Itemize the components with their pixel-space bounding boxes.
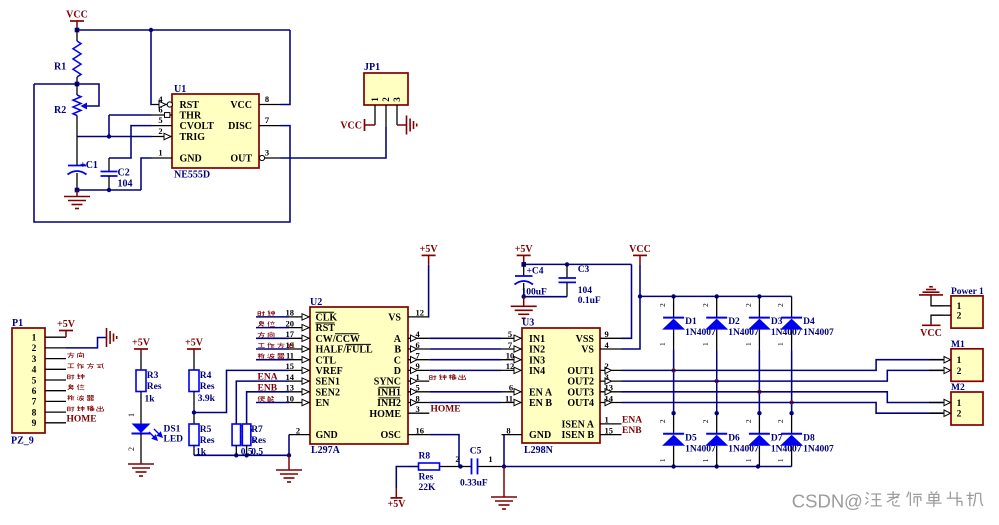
svg-text:VCC: VCC [629,244,651,255]
svg-text:INH2: INH2 [377,398,401,409]
power port +5V (U2 VS) [422,254,436,256]
svg-text:15: 15 [605,425,614,435]
svg-text:Res: Res [200,436,215,446]
wire VSS pin9 to +5V [622,264,632,338]
net label 时钟输出 [68,407,75,412]
pin 8 U3 GND [502,434,523,436]
svg-text:13: 13 [286,383,295,393]
svg-text:EN A: EN A [529,387,553,398]
svg-text:2: 2 [32,344,37,354]
wire VCC diode rail [640,295,792,297]
wire bottom diode rail [504,466,792,468]
svg-text:1: 1 [127,413,136,417]
wire GND pin1 [141,158,152,190]
svg-text:SYNC: SYNC [374,377,401,388]
svg-text:8: 8 [265,94,269,104]
svg-text:22K: 22K [419,483,437,493]
pin 16 U2 OSC [408,434,429,436]
svg-text:B: B [394,345,401,356]
wire stub U2 row 4 [256,359,289,361]
wire OUT4 [622,403,944,414]
pin 1 U3 ISEN A [600,423,622,425]
op-amp U1 NE555D [172,94,259,168]
svg-text:12: 12 [416,308,425,318]
svg-text:+5V: +5V [132,338,151,349]
pin 7 U3 IN2 [501,348,522,350]
svg-text:1: 1 [158,148,162,158]
svg-text:Res: Res [200,382,215,392]
pin 17 U2 CW/CCW [289,337,310,339]
svg-text:+5V: +5V [420,244,439,255]
wire +5V rail [524,263,632,265]
capacitor C2 [101,171,118,173]
svg-text:2: 2 [701,419,710,423]
pin 1 M1 [929,359,951,361]
svg-text:2: 2 [658,419,667,423]
IC U2 L297A [310,307,408,444]
power port +5V (R3) [134,348,148,350]
svg-text:2: 2 [776,303,785,307]
pin 4 U3 VS [600,348,622,350]
svg-text:11: 11 [505,393,513,403]
svg-text:DS1: DS1 [164,425,181,435]
svg-text:OUT2: OUT2 [567,377,594,388]
resistor R6 [232,424,241,446]
wire stub U2 row 0 [256,316,289,318]
pin 14 U2 SEN1 [289,380,310,382]
svg-text:1: 1 [701,458,710,462]
svg-text:CTL: CTL [316,355,337,366]
wire stub U2 row 2 [256,337,289,339]
svg-text:CSDN: CSDN [792,491,844,512]
wire INH1 to EN A [429,391,501,393]
pin 1 M2 [929,402,951,404]
ground (P1 pin2) [106,328,108,347]
pin 9 U2 D [408,369,429,371]
svg-text:2: 2 [296,425,300,435]
svg-text:2: 2 [957,367,962,377]
wire TRIG row [77,136,152,138]
pin 6 U3 EN A [501,391,522,393]
pin 2 JP1 [385,105,387,127]
ground (LED) [140,462,142,464]
svg-text:1: 1 [744,342,753,346]
pin 3 JP1 to ground [396,105,398,125]
pin 11 U3 EN B [501,402,522,404]
pin 3 U1 [259,157,281,159]
wire THR branch [108,115,110,137]
svg-text:9: 9 [32,419,37,429]
pin 1 Power1 to ground [943,305,951,307]
svg-text:ENA: ENA [258,373,278,383]
pin 2 M2 [929,412,951,414]
svg-text:TRIG: TRIG [180,132,206,143]
pin 18 U2 CLK [289,316,310,318]
svg-text:VCC: VCC [230,100,252,111]
wire diode column 2 [716,296,718,317]
svg-text:HOME: HOME [431,405,461,415]
net label 复位 (U2) [258,321,264,327]
svg-text:RST: RST [316,323,336,334]
svg-text:1: 1 [658,342,667,346]
wire OUT1 [622,360,944,371]
pin 2 M1 [929,369,951,371]
pin 1 JP1 to VCC [374,105,376,125]
net label 方向 [67,352,74,358]
svg-text:M2: M2 [951,383,965,393]
svg-text:D: D [394,366,401,377]
svg-text:7: 7 [32,398,37,408]
svg-text:SEN2: SEN2 [316,387,340,398]
svg-text:6: 6 [509,383,513,393]
svg-text:5: 5 [158,115,162,125]
svg-text:VCC: VCC [66,10,88,21]
wire VS pin12 [428,265,431,317]
svg-text:1N4007: 1N4007 [803,328,834,338]
connector P1 PZ_9 [12,328,45,433]
svg-text:Power 1: Power 1 [951,287,984,297]
node R1/R2 junction [34,83,77,85]
svg-text:13: 13 [605,383,614,393]
wire sense rail [194,454,289,456]
svg-text:D7: D7 [771,433,783,443]
svg-text:R4: R4 [200,371,212,381]
pin 5 U1 [152,125,173,127]
svg-text:RST: RST [180,100,200,111]
pin 7 U2 C [408,359,429,361]
svg-text:0.1uF: 0.1uF [578,296,601,306]
svg-text:3: 3 [392,97,402,102]
pin 13 U2 SEN2 [289,391,310,393]
node OUT junction D4 [789,400,793,404]
svg-text:2: 2 [776,419,785,423]
svg-text:R2: R2 [54,105,66,116]
svg-text:3: 3 [32,355,37,365]
wire RST from rail [150,30,153,105]
svg-text:+5V: +5V [185,338,204,349]
resistor R3 [136,370,146,392]
svg-text:3.9k: 3.9k [198,394,216,404]
pin 6 U1 [152,114,173,116]
svg-text:1: 1 [370,97,380,102]
power port +5V (P1) [59,330,73,332]
svg-text:OUT3: OUT3 [567,387,594,398]
svg-text:1: 1 [416,372,420,382]
svg-text:ENB: ENB [258,383,278,393]
svg-text:Res: Res [419,473,434,483]
connector M1 [951,349,983,382]
ground (C4) [523,297,525,307]
svg-text:16: 16 [416,425,425,435]
svg-text:VSS: VSS [576,334,595,345]
power port VCC (top) [70,20,84,22]
svg-text:6: 6 [32,387,37,397]
wire ground rail (555) [77,189,141,191]
wire VCC pin8 [281,30,291,105]
connector Power 1 [951,296,983,328]
svg-text:2: 2 [744,303,753,307]
svg-text:+5V: +5V [515,244,534,255]
svg-text:CW/CCW: CW/CCW [316,334,360,345]
rheostat R2 [76,84,78,95]
svg-text:ISEN A: ISEN A [561,420,594,431]
svg-text:ISEN B: ISEN B [561,430,594,441]
svg-text:L297A: L297A [311,445,341,456]
svg-text:THR: THR [180,111,202,122]
svg-text:1: 1 [701,342,710,346]
pin 14 U3 OUT4 [600,402,622,404]
svg-text:D8: D8 [803,433,815,443]
svg-text:14: 14 [605,393,614,403]
wire R2 wiper loop [77,84,99,106]
net label 时钟 [68,375,75,380]
wire DISC feedback loop [34,84,290,222]
pin 20 U2 RST [289,327,310,329]
svg-text:R3: R3 [147,371,159,381]
svg-text:2: 2 [957,312,962,322]
svg-text:1: 1 [744,458,753,462]
pin 2 Power1 to VCC [943,314,951,316]
svg-text:C2: C2 [118,168,130,179]
ground (U3) [503,467,505,498]
svg-text:1N4007: 1N4007 [803,444,834,454]
wire OUT to JP1 [281,127,387,158]
pin 11 U2 CTL [289,359,310,361]
net label 工作方式 [67,364,74,368]
svg-text:14: 14 [286,372,295,382]
svg-text:1k: 1k [145,395,156,405]
svg-text:IN1: IN1 [529,334,545,345]
power port +5V inverted (R8) [396,467,408,489]
svg-text:VS: VS [388,313,401,324]
svg-text:C: C [394,355,401,366]
pin 10 U3 IN3 [501,359,522,361]
svg-text:U3: U3 [522,318,534,329]
wire stub U2 row 1 [256,327,289,329]
svg-text:R8: R8 [419,452,431,462]
pin 3 U3 OUT2 [600,380,622,382]
svg-text:NE555D: NE555D [174,170,210,181]
svg-text:3: 3 [265,148,269,158]
net label 使能 (U2) [258,396,265,402]
svg-text:R7: R7 [251,425,263,435]
power port VCC (Power1 inverted) [922,324,941,326]
svg-text:Res: Res [147,382,162,392]
svg-text:IN4: IN4 [529,366,545,377]
pin 8 U2 INH2 [408,402,429,404]
capacitor C3 [566,264,568,278]
svg-text:EN B: EN B [529,398,552,409]
pin 4 U1 [152,104,173,106]
pin 10 U2 EN [289,402,310,404]
svg-text:U1: U1 [174,84,186,95]
svg-text:9: 9 [416,361,420,371]
svg-text:GND: GND [180,154,202,165]
ground (Power1 inverted) [930,295,932,296]
svg-text:GND: GND [316,430,338,441]
svg-text:SEN1: SEN1 [316,377,340,388]
svg-text:5: 5 [508,329,512,339]
svg-text:2: 2 [744,419,753,423]
svg-text:+C1: +C1 [80,160,98,171]
pin decorations U1 [159,101,166,107]
svg-text:CVOLT: CVOLT [180,121,215,132]
wire stub U2 row 8 [256,402,289,404]
svg-text:P1: P1 [12,318,23,329]
power port +5V (R4) [187,348,201,350]
svg-text:2: 2 [957,410,962,420]
pin 5 U2 INH1 [408,391,429,393]
svg-text:ENA: ENA [622,415,642,425]
wire top rail [77,29,290,31]
svg-text:OUT1: OUT1 [567,366,594,377]
wire OSC [429,435,460,467]
svg-text:INH1: INH1 [377,387,401,398]
wire C4-C3 bottom [524,296,567,298]
svg-text:VCC: VCC [340,121,362,132]
pin 13 U3 OUT3 [600,391,622,393]
ground (sense rail) [288,455,290,470]
net label 复位 [68,384,74,390]
svg-text:VCC: VCC [920,328,942,339]
svg-text:1: 1 [605,415,609,425]
svg-text:5: 5 [32,376,37,386]
svg-text:R5: R5 [200,425,212,435]
svg-text:R1: R1 [54,62,66,73]
svg-text:OUT: OUT [230,154,252,165]
pin 8 U1 [259,104,281,106]
pin GND U2 [289,434,310,436]
svg-text:1: 1 [776,458,785,462]
svg-text:VS: VS [581,345,594,356]
svg-text:0.5: 0.5 [251,448,263,458]
svg-text:L298N: L298N [524,445,554,456]
svg-text:10: 10 [506,351,515,361]
pin 6 U2 B [408,348,429,350]
svg-text:9: 9 [605,329,609,339]
pin 9 U3 VSS [600,337,622,339]
svg-text:1: 1 [488,454,492,464]
resistor R5 [189,424,199,446]
capacitor C4 (polarized) [523,264,525,276]
svg-text:VREF: VREF [316,366,343,377]
svg-text:EN: EN [316,398,331,409]
svg-text:D3: D3 [771,317,783,327]
svg-text:@: @ [844,491,863,512]
connector M2 [951,392,983,425]
svg-text:2: 2 [158,126,162,136]
svg-text:GND: GND [529,430,551,441]
svg-text:0.33uF: 0.33uF [460,479,488,489]
pin 15 U2 VREF [289,369,310,371]
wires U2 A-D to U3 IN1-4 [429,337,501,339]
svg-text:2: 2 [605,361,609,371]
net label 工作方式 (U2) [258,343,265,347]
svg-text:PZ_9: PZ_9 [11,436,34,447]
svg-text:104: 104 [118,179,133,190]
net label 方向 (U2) [258,332,265,338]
svg-text:1: 1 [776,342,785,346]
svg-text:C3: C3 [578,265,590,275]
resistor R4 [189,370,199,392]
svg-text:3: 3 [605,372,609,382]
wire GND U3 to rail [503,435,505,467]
wire diode column 1 [673,296,675,317]
pin 2 U3 OUT1 [600,369,622,371]
svg-text:OUT4: OUT4 [567,398,594,409]
svg-text:+5V: +5V [388,499,407,510]
svg-text:HOME: HOME [369,409,401,420]
svg-text:IN3: IN3 [529,355,545,366]
svg-text:2: 2 [381,97,391,102]
wire stub U2 row 3 [256,348,289,350]
svg-text:LED: LED [164,435,184,445]
pin 4 U2 A [408,337,429,339]
svg-text:+5V: +5V [57,319,76,330]
resistor R8 [409,466,419,468]
pin 7 U1 [259,125,281,127]
svg-text:8: 8 [506,425,510,435]
svg-text:1: 1 [957,356,962,366]
svg-text:D5: D5 [685,433,697,443]
svg-text:U2: U2 [310,297,322,308]
ground (under C1) [76,190,78,197]
svg-text:2: 2 [658,303,667,307]
svg-text:ENB: ENB [622,426,642,436]
wire R4/R5 junction to VREF [194,370,289,412]
pin 5 U3 IN1 [501,337,522,339]
svg-text:JP1: JP1 [364,62,380,73]
wire VCC to VS pin4 [622,265,641,349]
power port +5V (U3) [517,254,531,256]
pin 12 U2 VS [408,316,429,318]
svg-text:M1: M1 [951,340,965,350]
pin 3 U2 HOME [408,412,429,414]
wire INH2 to EN B [429,402,501,404]
svg-text:2: 2 [455,454,459,464]
net label 斩波器 [67,395,74,400]
svg-text:D4: D4 [803,317,815,327]
node OUT junction D3 [757,390,761,394]
svg-text:HALF/FULL: HALF/FULL [316,345,374,356]
svg-text:5: 5 [416,383,420,393]
svg-text:D6: D6 [728,433,740,443]
svg-text:DISC: DISC [228,121,252,132]
net label 时钟 (U2) [258,311,265,316]
wire SEN2 to R7 [247,392,289,424]
svg-text:D2: D2 [728,317,740,327]
pin 1 U1 [152,157,173,159]
svg-text:IN2: IN2 [529,345,545,356]
svg-text:+C4: +C4 [527,267,544,277]
svg-text:HOME: HOME [67,415,97,425]
svg-text:C5: C5 [470,447,482,457]
wire OUT3 [622,392,944,403]
wire diode column 3 [758,296,760,317]
ground (JP1) [406,116,408,135]
svg-text:8: 8 [416,393,420,403]
resistor R1 [76,30,78,41]
svg-text:A: A [394,334,402,345]
svg-text:2: 2 [127,447,136,451]
svg-text:8: 8 [32,408,37,418]
wire diode column 4 [791,296,793,317]
svg-text:12: 12 [506,361,515,371]
svg-text:Res: Res [251,436,266,446]
node OUT junction D2 [715,379,719,383]
pin 15 U3 ISEN B [600,434,622,436]
svg-text:15: 15 [286,361,295,371]
